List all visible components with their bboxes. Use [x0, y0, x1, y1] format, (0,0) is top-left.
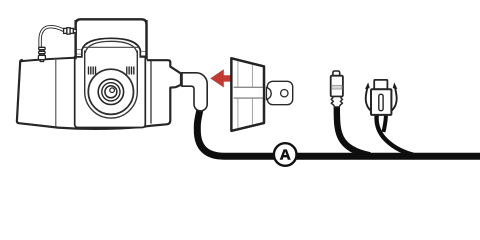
lens surround U panel	[85, 51, 138, 119]
lock knob K1	[231, 58, 264, 131]
2-pin connector right horn	[392, 86, 397, 111]
lens outer circle	[88, 69, 133, 114]
front bezel	[75, 38, 146, 127]
barrel connector band	[332, 85, 342, 89]
mount cable connector	[38, 47, 45, 61]
lens ring circle	[102, 83, 120, 101]
2-pin connector wires	[377, 115, 414, 155]
lock knob edge restroke	[231, 58, 264, 131]
camera body	[17, 56, 181, 129]
lens bezel circle	[98, 79, 123, 104]
body right section divider	[150, 61, 152, 124]
red arrow	[210, 69, 233, 87]
vent left	[88, 66, 96, 74]
mount bracket arms restroke	[76, 20, 147, 59]
mount bracket	[76, 19, 147, 59]
key shaft	[234, 87, 266, 99]
lock knob rim lines	[238, 60, 253, 129]
camera body outline	[17, 60, 181, 129]
key head	[267, 81, 292, 104]
bezel inner dome arc	[85, 41, 137, 53]
barrel connector cable	[337, 105, 370, 155]
bezel chord line	[84, 46, 139, 48]
mount cable plug	[64, 28, 77, 34]
2-pin connector left horn	[366, 86, 371, 111]
vent right	[126, 66, 134, 74]
barrel connector body	[331, 76, 343, 97]
elbow boot	[182, 73, 207, 111]
camera left end cap rim	[55, 58, 57, 127]
power cable	[197, 106, 480, 156]
callout A circle	[274, 143, 297, 166]
mount cable wire	[40, 27, 64, 48]
key collar	[266, 87, 271, 99]
2-pin connector tab	[374, 80, 387, 89]
2-pin connector slot	[379, 94, 383, 110]
barrel connector strain relief	[331, 97, 342, 107]
2-pin connector housing	[371, 89, 391, 115]
key head hole	[281, 90, 288, 97]
lens highlight circle	[110, 88, 115, 93]
barrel connector tip	[333, 71, 340, 76]
camera body top edge	[20, 56, 146, 61]
lens pupil circle	[105, 86, 117, 98]
callout A letter	[280, 149, 291, 159]
